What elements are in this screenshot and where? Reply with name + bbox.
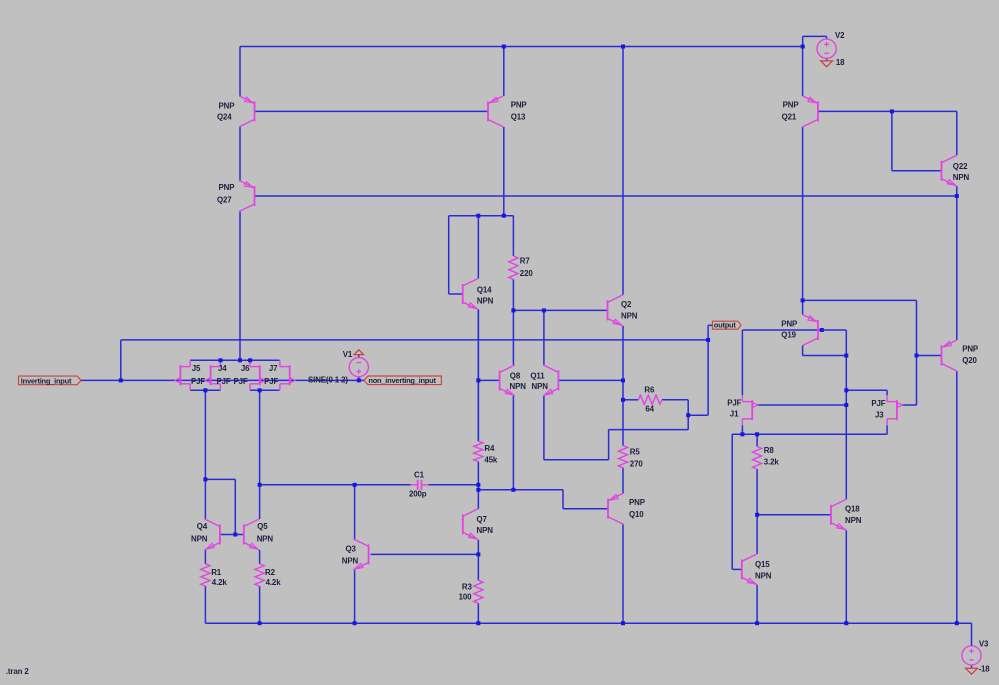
svg-text:PNP: PNP bbox=[511, 101, 527, 110]
svg-text:R1: R1 bbox=[211, 568, 222, 577]
svg-text:R7: R7 bbox=[520, 257, 531, 266]
svg-text:45k: 45k bbox=[484, 455, 498, 464]
svg-text:NPN: NPN bbox=[257, 534, 274, 543]
svg-text:3.2k: 3.2k bbox=[764, 458, 780, 467]
svg-text:V3: V3 bbox=[979, 639, 989, 648]
svg-text:C1: C1 bbox=[414, 471, 425, 480]
svg-text:NPN: NPN bbox=[510, 382, 527, 391]
svg-text:R6: R6 bbox=[644, 386, 655, 395]
svg-text:NPN: NPN bbox=[342, 557, 359, 566]
svg-text:V2: V2 bbox=[835, 31, 845, 40]
svg-text:J1: J1 bbox=[730, 410, 739, 419]
svg-text:Q24: Q24 bbox=[217, 113, 232, 122]
svg-text:NPN: NPN bbox=[532, 382, 549, 391]
svg-text:R2: R2 bbox=[265, 568, 276, 577]
svg-text:Q13: Q13 bbox=[511, 113, 526, 122]
svg-text:J5: J5 bbox=[192, 364, 201, 373]
svg-text:Q4: Q4 bbox=[197, 522, 208, 531]
svg-text:non_inverting_input: non_inverting_input bbox=[368, 376, 436, 385]
svg-text:220: 220 bbox=[520, 269, 534, 278]
svg-text:V1: V1 bbox=[343, 350, 353, 359]
svg-text:18: 18 bbox=[836, 58, 845, 67]
svg-text:Q27: Q27 bbox=[217, 196, 232, 205]
svg-text:R8: R8 bbox=[764, 446, 775, 455]
svg-text:Q20: Q20 bbox=[962, 356, 977, 365]
svg-text:64: 64 bbox=[645, 405, 654, 414]
svg-text:Q11: Q11 bbox=[530, 372, 545, 381]
svg-text:NPN: NPN bbox=[953, 173, 970, 182]
svg-text:100: 100 bbox=[459, 593, 473, 602]
svg-text:R5: R5 bbox=[630, 447, 641, 456]
svg-text:Q8: Q8 bbox=[510, 372, 521, 381]
svg-text:Q18: Q18 bbox=[845, 505, 860, 514]
svg-text:4.2k: 4.2k bbox=[212, 578, 228, 587]
svg-text:NPN: NPN bbox=[477, 526, 494, 535]
svg-text:PNP: PNP bbox=[783, 101, 799, 110]
svg-text:Inverting_input: Inverting_input bbox=[21, 376, 72, 385]
svg-text:PJF: PJF bbox=[234, 377, 248, 386]
svg-text:PJF: PJF bbox=[264, 377, 278, 386]
svg-text:PNP: PNP bbox=[781, 319, 797, 328]
svg-text:270: 270 bbox=[630, 459, 644, 468]
svg-text:J4: J4 bbox=[218, 364, 227, 373]
svg-text:PNP: PNP bbox=[629, 498, 645, 507]
svg-text:200p: 200p bbox=[409, 490, 427, 499]
svg-text:Q15: Q15 bbox=[755, 560, 770, 569]
svg-text:Q21: Q21 bbox=[782, 113, 797, 122]
svg-text:Q14: Q14 bbox=[477, 285, 492, 294]
svg-text:Q5: Q5 bbox=[257, 522, 268, 531]
svg-text:NPN: NPN bbox=[477, 296, 494, 305]
svg-text:PNP: PNP bbox=[962, 345, 978, 354]
svg-text:Q19: Q19 bbox=[781, 330, 796, 339]
svg-text:R4: R4 bbox=[484, 444, 495, 453]
svg-text:NPN: NPN bbox=[621, 311, 638, 320]
svg-text:R3: R3 bbox=[462, 583, 473, 592]
svg-text:Q2: Q2 bbox=[621, 300, 632, 309]
svg-text:NPN: NPN bbox=[191, 534, 208, 543]
svg-text:PJF: PJF bbox=[871, 399, 885, 408]
svg-text:PNP: PNP bbox=[219, 183, 235, 192]
svg-text:SINE(0 1 2): SINE(0 1 2) bbox=[308, 375, 348, 384]
svg-text:Q22: Q22 bbox=[953, 162, 968, 171]
svg-text:-18: -18 bbox=[979, 665, 991, 674]
svg-text:J3: J3 bbox=[875, 411, 884, 420]
svg-text:Q3: Q3 bbox=[346, 545, 357, 554]
svg-text:.tran 2: .tran 2 bbox=[6, 667, 30, 676]
svg-text:Q10: Q10 bbox=[629, 510, 644, 519]
svg-text:PNP: PNP bbox=[219, 102, 235, 111]
svg-text:NPN: NPN bbox=[845, 516, 862, 525]
svg-text:4.2k: 4.2k bbox=[266, 578, 282, 587]
svg-text:Q7: Q7 bbox=[477, 515, 488, 524]
svg-text:PJF: PJF bbox=[191, 377, 205, 386]
svg-text:PJF: PJF bbox=[727, 399, 741, 408]
svg-text:output: output bbox=[714, 321, 737, 330]
svg-text:NPN: NPN bbox=[755, 572, 772, 581]
svg-text:J6: J6 bbox=[241, 364, 250, 373]
svg-text:J7: J7 bbox=[269, 364, 278, 373]
svg-text:PJF: PJF bbox=[217, 377, 231, 386]
